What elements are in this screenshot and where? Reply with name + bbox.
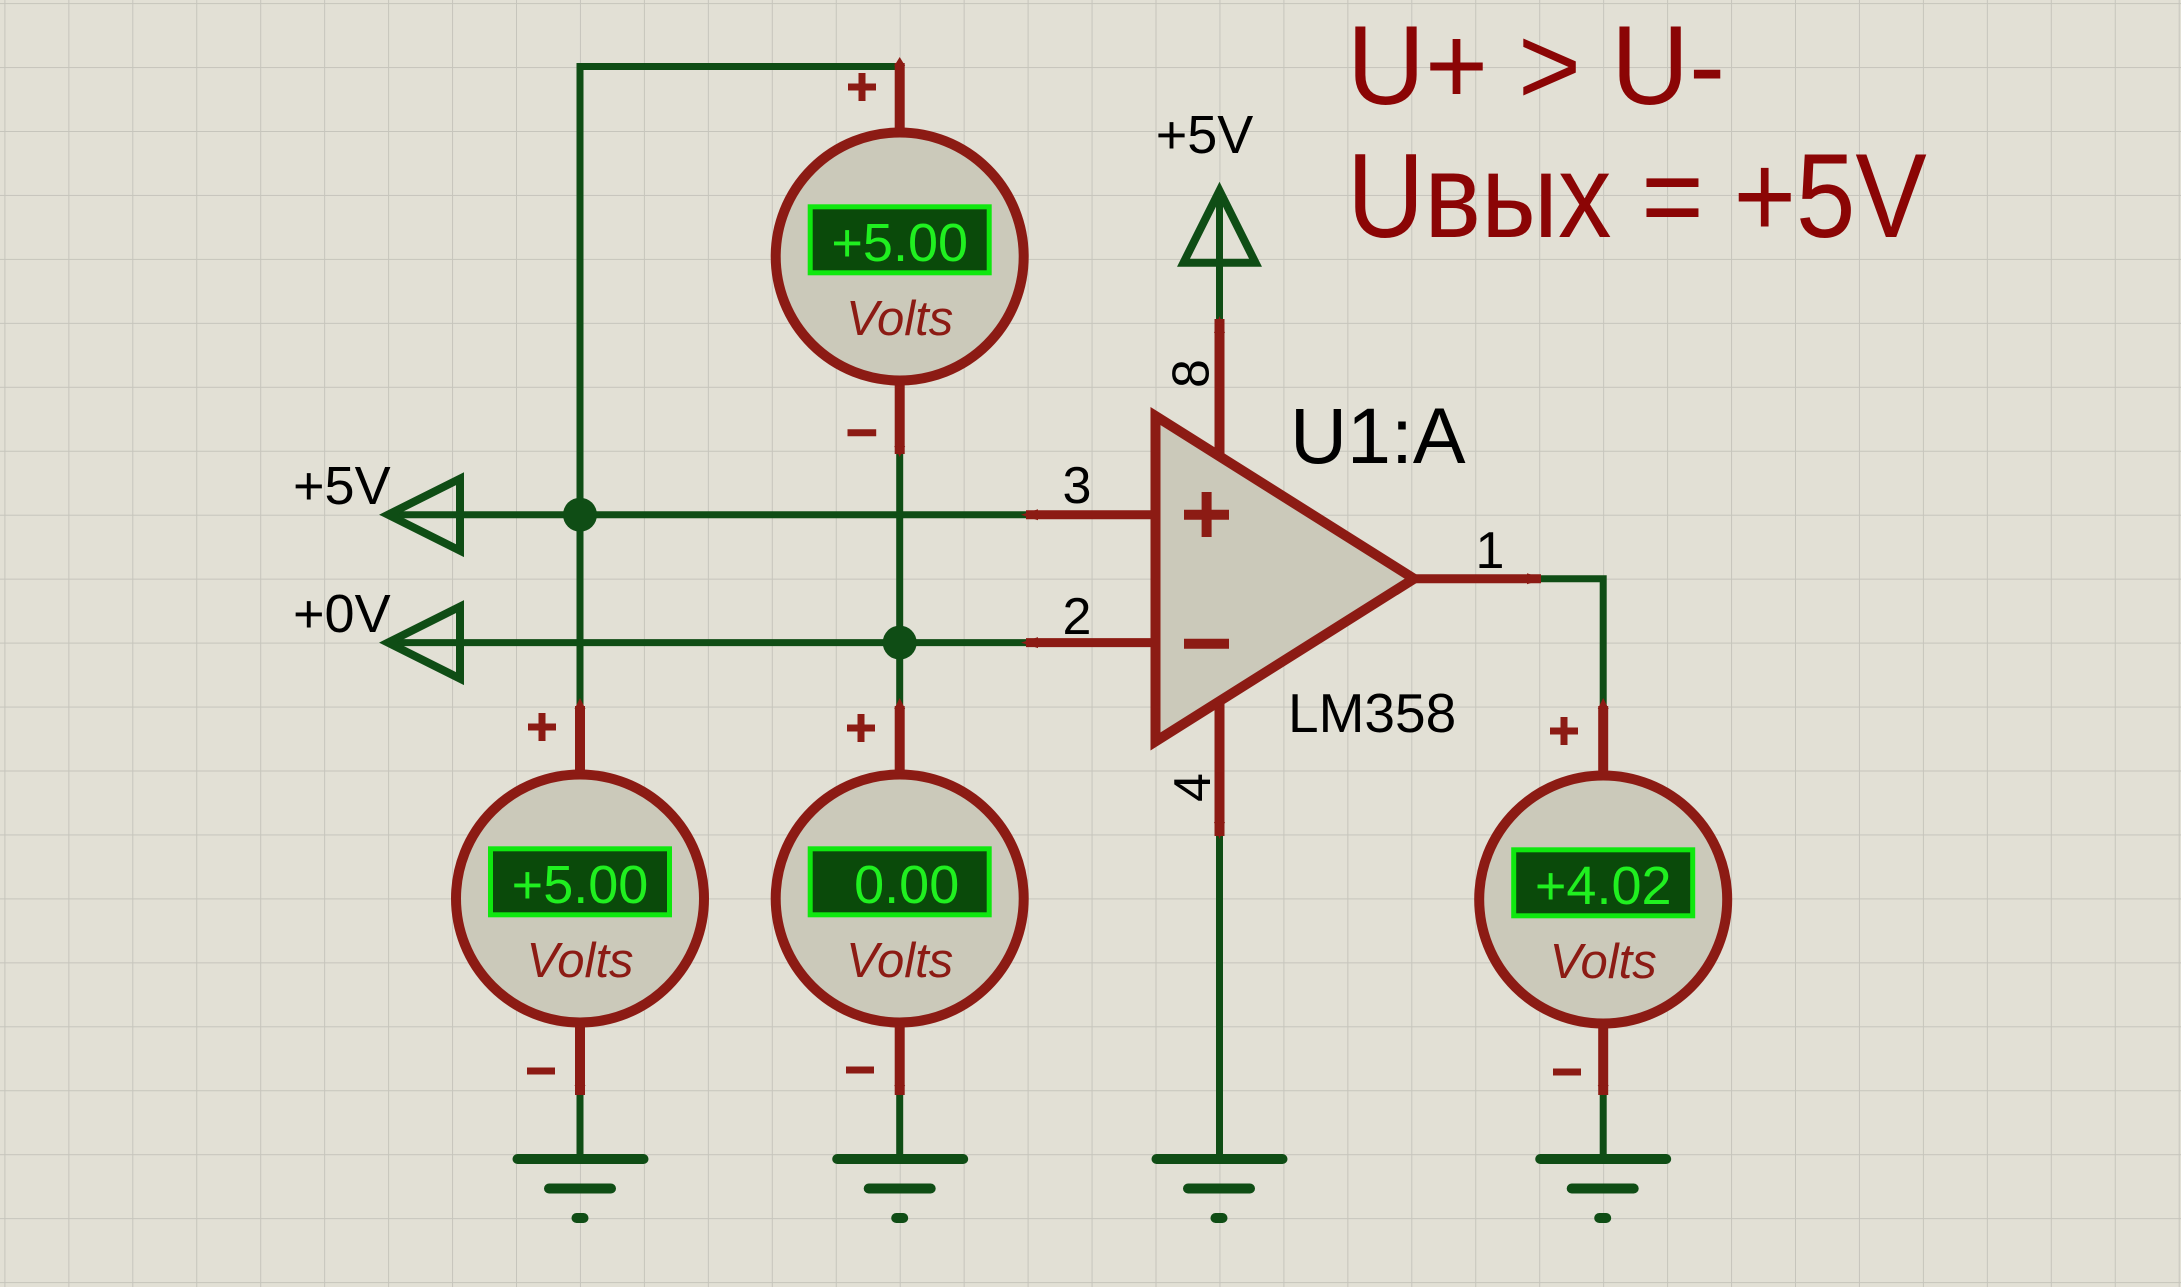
svg-text:3: 3 <box>1063 457 1092 515</box>
voltmeter right (+4.02): pin + stub <box>1598 706 1608 776</box>
junction dot node +5V <box>563 498 597 532</box>
voltmeter mid: minus mark <box>846 1067 874 1074</box>
wire left meter to ground <box>577 1095 584 1159</box>
op-amp U1:A pin 3 stub <box>1026 510 1156 519</box>
wire right meter to ground <box>1600 1095 1607 1159</box>
voltmeter right: pin - stub <box>1598 1024 1608 1095</box>
ground symbol mid <box>837 1159 963 1218</box>
voltmeter right: minus mark <box>1553 1069 1581 1076</box>
voltmeter right: pin tip caps <box>1598 698 1609 1096</box>
wire: pin1 output to right meter <box>1541 579 1603 706</box>
voltmeter top: LCD panel <box>810 207 989 273</box>
wire pin 4 to ground <box>1216 836 1223 1159</box>
svg-text:+5.00: +5.00 <box>512 855 649 915</box>
svg-text:+5.00: +5.00 <box>831 213 968 273</box>
voltmeter left (+5.00): pin + stub <box>575 706 585 775</box>
wire: +5V net left vertical <box>577 63 584 706</box>
voltmeter mid (0.00): pin + stub <box>895 706 905 775</box>
voltmeter mid: plus mark <box>847 714 875 742</box>
svg-text:U+ > U-: U+ > U- <box>1347 3 1725 128</box>
op-amp U1:A pin 2 stub <box>1026 638 1156 647</box>
wire mid meter to ground <box>896 1095 903 1159</box>
voltmeter top: pin + stub <box>895 63 905 133</box>
svg-text:+5V: +5V <box>293 456 391 516</box>
voltmeter left: pin tip caps <box>575 698 586 1096</box>
voltmeter left: pin - stub <box>575 1023 585 1095</box>
svg-text:Uвых = +5V: Uвых = +5V <box>1347 129 1927 263</box>
voltmeter top: plus mark <box>848 73 876 101</box>
wire: +5V line to pin 3 <box>388 511 1026 518</box>
svg-text:+5V: +5V <box>1156 105 1254 165</box>
svg-text:1: 1 <box>1476 522 1505 580</box>
op-amp U1:A pin 4 stub <box>1215 700 1225 836</box>
voltmeter left: plus mark <box>528 713 556 741</box>
voltmeter mid: pin - stub <box>895 1023 905 1095</box>
svg-text:8: 8 <box>1163 359 1221 388</box>
svg-text:Volts: Volts <box>846 292 953 346</box>
terminal arrow +0V left <box>388 607 460 679</box>
voltmeter left: body circle <box>456 775 704 1023</box>
voltmeter mid: body circle <box>776 775 1024 1023</box>
svg-text:0.00: 0.00 <box>854 855 959 915</box>
svg-text:LM358: LM358 <box>1288 682 1456 744</box>
op-amp U1:A triangle body <box>1156 416 1415 742</box>
voltmeter left: minus mark <box>527 1068 555 1075</box>
wire: +5V net top horizontal <box>580 63 900 70</box>
svg-text:4: 4 <box>1164 773 1222 802</box>
ground symbol for pin 4 <box>1157 1159 1283 1218</box>
power arrow +5V top <box>1184 191 1256 263</box>
voltmeter top: minus mark <box>848 429 877 436</box>
junction dot node +0V <box>883 626 917 660</box>
svg-text:U1:A: U1:A <box>1290 391 1466 480</box>
svg-text:+0V: +0V <box>293 584 391 644</box>
ground symbol right <box>1540 1159 1666 1218</box>
voltmeter top: pin tip caps <box>894 57 905 457</box>
svg-text:2: 2 <box>1063 588 1092 646</box>
op-amp plus input mark <box>1184 492 1229 537</box>
terminal arrow +5V left <box>388 479 460 551</box>
voltmeter left: LCD panel <box>491 849 670 915</box>
voltmeter mid: pin tip caps <box>894 698 905 1096</box>
voltmeter right: plus mark <box>1550 717 1578 745</box>
voltmeter top: pin - stub <box>895 382 905 454</box>
voltmeter right: body circle <box>1479 776 1727 1024</box>
op-amp U1:A pin 8 stub <box>1215 319 1225 458</box>
voltmeter right: LCD panel <box>1514 850 1693 916</box>
svg-text:Volts: Volts <box>526 934 633 988</box>
voltmeter top: body circle <box>776 133 1024 381</box>
wire: top meter minus to 0V vertical <box>896 453 903 706</box>
ground symbol left <box>518 1159 644 1218</box>
op-amp minus input mark <box>1184 639 1229 649</box>
wire: +0V line to pin 2 <box>388 639 1026 646</box>
svg-text:+4.02: +4.02 <box>1535 856 1672 916</box>
pin end caps (pointed tips) <box>1021 316 1544 839</box>
voltmeter mid: LCD panel <box>810 849 989 915</box>
svg-text:Volts: Volts <box>1550 935 1657 989</box>
svg-text:Volts: Volts <box>846 934 953 988</box>
power arrow stem / wire to pin 8 <box>1216 196 1223 319</box>
op-amp U1:A pin 1 stub <box>1410 574 1541 583</box>
